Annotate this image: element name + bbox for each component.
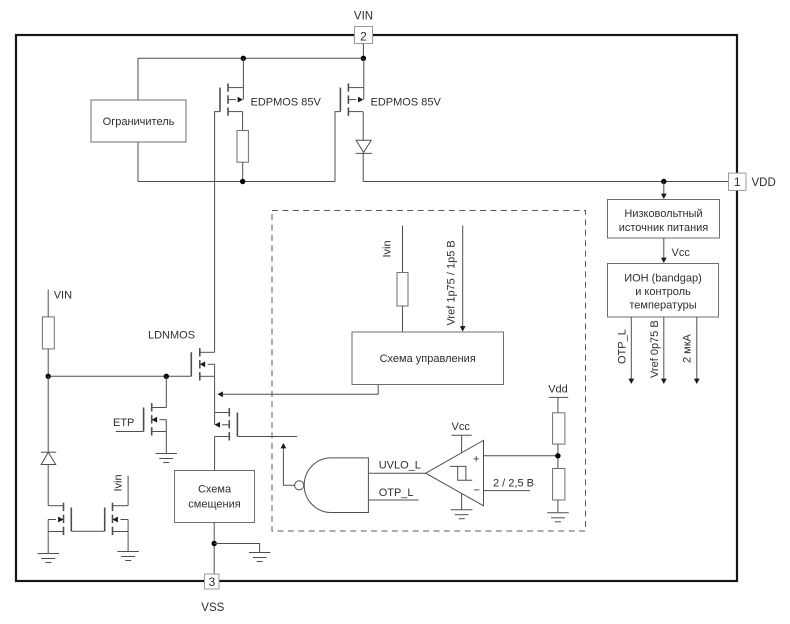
wire VSS ground branch <box>214 544 259 553</box>
wire minus input <box>484 490 531 492</box>
node gate junction <box>164 374 169 379</box>
wire divider to ground <box>557 500 559 513</box>
svg-text:LDNMOS: LDNMOS <box>148 330 195 342</box>
resistor R_ivin <box>397 273 408 307</box>
wire T1 source down <box>242 112 244 131</box>
svg-text:ETP: ETP <box>113 417 134 429</box>
resistor R1 under T1 <box>237 131 248 163</box>
box Схема смещения <box>175 471 255 523</box>
NAND gate U2 mirrored <box>295 458 369 513</box>
wire comparator gnd stub <box>461 493 463 509</box>
arrow Vcc to bandgap <box>661 238 667 263</box>
Vdd T-bar <box>549 397 569 412</box>
resistor R_vin <box>42 317 54 349</box>
svg-text:VDD: VDD <box>752 177 776 189</box>
ground VSS branch <box>249 553 271 562</box>
pin 1 (VDD) box <box>729 173 747 190</box>
node divider junction <box>555 453 560 458</box>
wire T1 gate drop to LDNMOS <box>214 182 216 353</box>
wire top rail <box>138 57 363 59</box>
svg-text:UVLO_L: UVLO_L <box>379 460 421 472</box>
arrow OTP_L output <box>628 317 634 384</box>
svg-text:смещения: смещения <box>188 499 240 511</box>
Vcc T-bar <box>452 435 472 453</box>
wire LDNMOS gate lead <box>48 375 191 377</box>
svg-text:VIN: VIN <box>54 290 72 302</box>
resistor R3 divider bottom <box>553 469 565 501</box>
wire diode to M3 <box>47 465 49 506</box>
transistor M3 mirrored left <box>48 503 71 535</box>
ground ETP <box>156 454 178 463</box>
wire VDD rail B <box>363 181 728 183</box>
arrow VDD to LV supply <box>661 182 667 200</box>
wire divider mid <box>557 444 559 468</box>
svg-text:ИОН (bandgap): ИОН (bandgap) <box>624 273 702 285</box>
box Схема управления <box>352 332 504 385</box>
wire gate U link <box>71 530 104 532</box>
wire LDNMOS source down <box>214 364 216 425</box>
wire R_vin to node B <box>47 349 49 376</box>
transistor ETP <box>116 403 167 435</box>
wire M2 gate lead <box>237 436 297 438</box>
node top-left junction <box>241 56 246 61</box>
arrow 2 мкА output <box>694 317 700 384</box>
svg-text:OTP_L: OTP_L <box>379 487 414 499</box>
svg-text:Vcc: Vcc <box>452 421 471 433</box>
wire R_ivin to control box <box>402 306 404 332</box>
svg-text:+: + <box>473 454 479 466</box>
wire ETP source down <box>165 420 167 454</box>
node B junction <box>46 374 51 379</box>
svg-text:температуры: температуры <box>629 300 696 312</box>
svg-text:Vdd: Vdd <box>548 384 568 396</box>
node VDD junction <box>661 179 666 184</box>
ground comparator <box>451 510 473 519</box>
svg-text:источник питания: источник питания <box>619 222 709 234</box>
svg-text:OTP_L: OTP_L <box>617 329 629 364</box>
svg-text:и контроль: и контроль <box>635 286 691 298</box>
node A junction <box>240 179 245 184</box>
svg-text:EDPMOS 85V: EDPMOS 85V <box>251 96 322 108</box>
svg-text:3: 3 <box>208 575 215 589</box>
wire T2 drain up <box>363 58 365 99</box>
resistor R2 divider top <box>553 413 565 444</box>
transistor M4 <box>105 503 128 535</box>
wire limiter left drop lower <box>137 142 139 182</box>
wire OTP_L input <box>368 499 418 501</box>
svg-text:VSS: VSS <box>201 602 224 614</box>
wire node B down to diode <box>47 376 49 452</box>
wire M2 source down to bias box <box>214 437 216 471</box>
box Низковольтный источник питания <box>608 200 720 239</box>
svg-text:Vref 1p75 / 1p5 В: Vref 1p75 / 1p5 В <box>446 240 458 325</box>
svg-text:2 мкА: 2 мкА <box>682 333 694 363</box>
comparator U3 <box>426 440 484 506</box>
wire NAND output up with arrow <box>281 443 295 485</box>
wire T1 drain up <box>242 58 244 99</box>
svg-text:Схема: Схема <box>198 484 232 496</box>
wire gate rail A <box>138 181 335 183</box>
svg-text:Ограничитель: Ограничитель <box>103 116 175 128</box>
wire VIN left lead <box>47 290 49 317</box>
wire pin2 to node <box>362 44 364 59</box>
wire plus input <box>484 455 558 457</box>
transistor T2 EDPMOS 85V <box>335 83 364 181</box>
transistor M2 mirrored <box>215 408 238 440</box>
svg-text:2: 2 <box>360 29 367 43</box>
ground M3 <box>38 554 60 563</box>
pin 3 (VSS) box <box>205 574 220 589</box>
arrow Vref 1p75 into control box <box>460 226 466 332</box>
box Ограничитель <box>91 100 186 142</box>
svg-text:Схема управления: Схема управления <box>380 353 476 365</box>
svg-text:EDPMOS 85V: EDPMOS 85V <box>371 96 442 108</box>
arrow Vref output <box>661 317 667 384</box>
svg-text:Низковольтный: Низковольтный <box>624 208 702 220</box>
transistor T1 EDPMOS 85V <box>215 83 244 181</box>
svg-text:Vcc: Vcc <box>672 247 691 259</box>
diode D2 pointing up <box>41 452 56 464</box>
pin 2 (VIN) box <box>355 27 373 44</box>
wire bias box to VSS <box>213 523 215 575</box>
wire D1 to VDD rail <box>362 153 364 181</box>
box ИОН (bandgap) и контроль температуры <box>608 264 719 318</box>
wire UVLO_L input <box>368 472 425 474</box>
node VSS junction <box>212 541 217 546</box>
svg-text:1: 1 <box>734 175 741 189</box>
wire limiter left drop upper <box>137 58 139 100</box>
wire control to LDNMOS with arrow <box>218 385 379 398</box>
svg-text:Vref 0p75 В: Vref 0p75 В <box>649 320 661 378</box>
wire Ivin feed upper <box>402 226 404 273</box>
wire R1 to node A <box>242 162 244 181</box>
svg-text:Ivin: Ivin <box>113 474 125 491</box>
ground divider <box>547 513 569 522</box>
svg-text:VIN: VIN <box>354 11 373 23</box>
svg-text:2 / 2,5 В: 2 / 2,5 В <box>493 478 534 490</box>
wire M4 drain up open <box>127 476 129 506</box>
transistor LDNMOS <box>191 348 214 380</box>
wire T2 source to diode <box>362 112 364 141</box>
chip outer border <box>16 35 737 581</box>
wire ETP drain up to gate node <box>165 376 167 407</box>
node top-right junction <box>361 56 366 61</box>
diode D1 under T2 <box>356 140 372 153</box>
ground M4 <box>117 552 138 561</box>
svg-text:−: − <box>474 485 480 497</box>
svg-text:Ivin: Ivin <box>382 240 394 257</box>
wire M4 source down <box>127 520 129 552</box>
dashed control block border <box>272 211 586 532</box>
wire M3 source to ground <box>47 520 49 554</box>
